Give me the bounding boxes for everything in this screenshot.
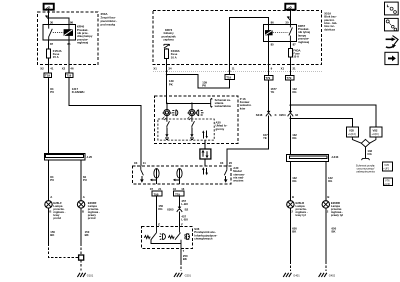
label E26LR — [296, 201, 308, 217]
svg-text:ków: ków — [240, 106, 246, 110]
wire 84 PU label — [50, 87, 54, 94]
instrument cluster P16 dashed box — [155, 96, 238, 143]
reference bracket — [209, 98, 212, 107]
svg-text:T19: T19 — [45, 74, 50, 78]
label KR40 — [77, 25, 93, 45]
svg-text:mgłowej: mgłowej — [298, 40, 309, 44]
pin labels 9 / X1 21 — [271, 67, 296, 71]
wire J-20 to left front lamp — [48, 160, 50, 201]
wire 132 OG label (lower) — [292, 133, 297, 140]
svg-text:PU: PU — [50, 90, 54, 94]
svg-text:X3: X3 — [220, 161, 224, 165]
wire 1677 YE to BCM X3-20 — [227, 116, 269, 166]
data link symbol box — [200, 149, 211, 159]
relay KR57 box — [263, 24, 296, 41]
legend box V35 — [383, 162, 393, 171]
body control module A30 dashed box — [132, 166, 231, 184]
svg-text:87: 87 — [50, 42, 54, 46]
wire 1677 YE label (upper) — [271, 87, 278, 94]
wire B+ to relay KR40 pin 30 — [48, 11, 50, 25]
svg-text:PK: PK — [202, 84, 206, 88]
splice pack J-20 — [44, 153, 85, 159]
wire 132 OG label (right rear) — [328, 176, 333, 183]
svg-text:33: 33 — [295, 113, 299, 117]
wire E26RR to ground — [325, 208, 327, 261]
svg-text:85: 85 — [271, 42, 275, 46]
label KR73 — [161, 28, 176, 42]
illumination ticks — [163, 117, 167, 120]
lamp E26LR — [287, 201, 294, 208]
svg-text:ciwmgłowych: ciwmgłowych — [194, 237, 212, 241]
wire splice to ground — [80, 260, 82, 272]
svg-text:L-BU: L-BU — [181, 218, 188, 222]
lamp E26LF — [45, 201, 52, 208]
wire 150 DG to switch S36 — [156, 196, 158, 226]
wire fuse F34DA down (139 PK) — [166, 58, 168, 103]
wire 84 PU label (left lamp) — [50, 175, 54, 182]
fuse F15UA — [47, 49, 51, 58]
BCM input pin (X4-16) — [173, 169, 182, 184]
svg-text:PU: PU — [50, 178, 54, 182]
nav icon forward arrow box — [385, 52, 398, 64]
svg-text:B: B — [49, 210, 51, 214]
svg-text:T98: T98 — [154, 192, 159, 196]
svg-text:OG: OG — [292, 90, 296, 94]
svg-text:16: 16 — [181, 187, 185, 191]
svg-text:41: 41 — [50, 67, 54, 71]
connector V35 box — [347, 127, 359, 137]
switch (front indicator) — [167, 116, 170, 128]
pin labels X3 20 — [220, 161, 233, 165]
label S36 — [194, 227, 217, 241]
label A30 logic — [216, 120, 228, 130]
wire 132 OG to trailer schematic — [365, 147, 367, 158]
svg-text:+UFJ: +UFJ — [383, 167, 390, 170]
front fog lamp icon — [172, 110, 178, 116]
wire 132 OG label (upper) — [292, 87, 297, 94]
svg-text:A: A — [83, 195, 85, 199]
svg-text:D-GN/WH: D-GN/WH — [72, 90, 85, 94]
BCM driver switch (front relay control) — [141, 166, 144, 175]
label P16 — [239, 97, 252, 111]
relay KR57 link dashed — [273, 32, 288, 34]
svg-text:BK: BK — [292, 230, 296, 234]
wire J-20 to right front lamp — [80, 160, 82, 201]
wire 150 BK label (left) — [50, 230, 55, 237]
svg-text:zapłonu: zapłonu — [163, 38, 174, 42]
connector T19 (left) — [44, 73, 51, 78]
junction dot (right indicator) — [191, 103, 193, 105]
svg-text:X1: X1 — [153, 67, 157, 71]
svg-text:giczny: giczny — [216, 127, 225, 131]
label X51A — [324, 11, 337, 31]
fuse F4DA — [288, 48, 292, 57]
wire KR57 pin 86 to X1-11 — [230, 18, 269, 75]
svg-text:V35: V35 — [384, 163, 389, 167]
svg-text:V82: V82 — [373, 128, 378, 132]
splice node — [79, 255, 84, 260]
lamp E26RR — [322, 201, 329, 208]
wire pin 87 to fuse — [48, 40, 50, 49]
wire E26LR to ground — [289, 208, 291, 261]
rear fog indicator lamp — [188, 109, 197, 116]
svg-text:V35: V35 — [349, 128, 354, 132]
relay KR40 contact — [49, 25, 53, 41]
svg-text:PU: PU — [83, 178, 87, 182]
svg-text:T19: T19 — [66, 74, 71, 78]
splice pack J-243 — [287, 154, 329, 161]
connector mark on B+ wire — [45, 16, 48, 20]
svg-text:K: K — [275, 113, 277, 117]
S36 lamp icon (front) — [159, 234, 165, 240]
junction dot — [290, 118, 292, 120]
switch (rear indicator) — [192, 116, 195, 128]
svg-text:BK: BK — [50, 233, 54, 237]
connector face dotted line X1 — [153, 70, 322, 72]
svg-text:B: B — [327, 195, 329, 199]
svg-text:10 A: 10 A — [293, 55, 299, 59]
svg-text:T19: T19 — [226, 76, 231, 80]
svg-text:X7: X7 — [150, 187, 154, 191]
wire rail to rear fog indicator — [191, 103, 193, 109]
svg-text:pod maską: pod maską — [101, 22, 116, 26]
pin labels X1 34 — [153, 67, 172, 71]
wire pin 85 to connector X2-46 — [68, 40, 70, 73]
relay KR40 box — [43, 25, 76, 41]
S36 internal wire — [151, 240, 181, 244]
svg-text:zabezpieczenia: zabezpieczenia — [356, 169, 375, 173]
junction dot — [166, 70, 168, 72]
wire B+ to relay KR57 pin 30 — [289, 11, 291, 25]
svg-text:11: 11 — [143, 161, 146, 165]
inline connector X204 pin 33 — [288, 111, 293, 116]
S36 lamp icon (rear) — [185, 234, 190, 240]
wire 250 BK to ground — [180, 248, 182, 262]
relay KR57 contact — [289, 24, 293, 41]
pin labels X4 16 — [173, 187, 185, 191]
svg-text:przód: przód — [53, 216, 61, 220]
svg-text:34: 34 — [168, 67, 172, 71]
svg-text:OG: OG — [292, 136, 296, 140]
relay KR40 coil — [64, 25, 73, 41]
svg-text:X2: X2 — [62, 67, 66, 71]
front fog indicator lamp — [163, 109, 172, 116]
wire branch 139 PK to T19 / X1-11 — [167, 75, 230, 88]
wire 650 BK label (right) — [332, 227, 337, 234]
svg-text:86: 86 — [271, 21, 275, 25]
S36 contact group (front) — [144, 227, 156, 240]
battery feed symbol B+ (hot at all times, left) — [44, 4, 54, 10]
logic unit A30 dotted box — [158, 119, 214, 140]
wire 132 OG label (left rear) — [292, 176, 297, 183]
connector mark on B+ wire — [287, 17, 290, 21]
inline connector X204 pin K — [266, 111, 271, 116]
BCM internal arrow (rear) — [224, 176, 228, 183]
svg-text:T79: T79 — [287, 76, 292, 80]
svg-text:YE: YE — [271, 90, 275, 94]
label E26RF — [88, 201, 100, 220]
wire 457 L-BU upper — [179, 196, 181, 207]
svg-text:J-243: J-243 — [331, 155, 339, 159]
svg-text:B: B — [292, 195, 294, 199]
svg-text:15 A: 15 A — [53, 55, 59, 59]
wire data link to BCM — [204, 159, 206, 166]
junction dot X1-11 — [229, 70, 231, 72]
wire 650 BK label (left) — [292, 227, 297, 234]
inline connector X205 — [177, 207, 182, 212]
svg-text:T79: T79 — [175, 192, 180, 196]
battery feed symbol B+ (right) — [285, 4, 295, 10]
nav icon component locator 2 — [385, 18, 399, 31]
svg-text:prawy tył: prawy tył — [331, 213, 343, 217]
wire 132 OG upper — [289, 80, 291, 112]
wire 457 L-BU label (lower) — [181, 214, 188, 221]
svg-text:11: 11 — [232, 67, 235, 71]
svg-text:21: 21 — [158, 187, 162, 191]
legend box V76 — [383, 178, 392, 186]
svg-text:BK: BK — [85, 233, 89, 237]
nav icon curved arrows — [386, 36, 399, 49]
BCM driver switch (rear relay control) — [224, 166, 227, 175]
svg-text:G101: G101 — [87, 273, 94, 277]
relay KR73 contact symbol — [164, 44, 170, 49]
connector V82 box — [370, 127, 382, 137]
svg-text:21: 21 — [293, 67, 297, 71]
relay KR40 link dashed — [53, 32, 64, 34]
ground G101 — [77, 273, 85, 277]
illumination ticks — [188, 117, 192, 120]
ground G401 — [283, 273, 291, 277]
wire 139 PK label (left) — [169, 79, 174, 86]
svg-text:87: 87 — [293, 42, 297, 46]
wire 1317 D-GN/WH label — [72, 87, 85, 94]
wire rail to front fog indicator — [166, 103, 168, 109]
junction dot 139 PK branch — [166, 74, 168, 76]
labels S248 K X204 33 — [256, 113, 299, 117]
svg-text:OG: OG — [367, 152, 371, 156]
svg-text:+U(FI): +U(FI) — [372, 133, 379, 136]
svg-text:BK: BK — [183, 257, 187, 261]
svg-text:OG: OG — [328, 179, 332, 183]
svg-text:B2: B2 — [185, 208, 189, 212]
lamp E26RF — [77, 201, 84, 208]
svg-text:YE: YE — [263, 136, 267, 140]
branch to V82 — [290, 105, 376, 127]
wire 132 OG middle — [289, 116, 291, 155]
svg-text:X2: X2 — [40, 67, 44, 71]
nav icon component locator 1 — [385, 2, 399, 15]
svg-text:PK: PK — [169, 82, 173, 86]
svg-text:X204: X204 — [279, 113, 286, 117]
svg-text:30: 30 — [50, 21, 54, 25]
label internal schematic reference — [214, 98, 232, 108]
label A30 BCM — [232, 166, 245, 183]
BCM input pin (X7-21) — [150, 169, 159, 184]
svg-text:46: 46 — [70, 67, 74, 71]
wire 150 DG label — [158, 204, 163, 211]
connector T19 (KR57 coil) — [225, 75, 235, 80]
serial data arrows (cluster) — [202, 130, 208, 138]
svg-text:X205: X205 — [167, 208, 174, 212]
wire 250 BK label — [183, 254, 188, 261]
svg-text:10 A: 10 A — [171, 55, 177, 59]
svg-text:OG: OG — [292, 179, 296, 183]
rear fog lamp icon — [197, 110, 204, 116]
ground arrow (rear) — [190, 128, 194, 139]
wire pin 87 to fuse F4DA — [289, 41, 291, 48]
label X205 / B2 — [167, 208, 189, 212]
relay KR57 coil — [265, 24, 272, 41]
svg-text:X1: X1 — [281, 67, 285, 71]
pin labels X2 41 / X2 46 — [40, 67, 74, 71]
connector T79 (1677) — [264, 76, 273, 81]
label KR57 — [298, 24, 310, 44]
branch to V35 — [290, 118, 352, 127]
junction dot — [290, 104, 292, 106]
connector T79 — [174, 191, 184, 196]
svg-text:G401: G401 — [293, 273, 300, 277]
wire 84 PU label (right lamp) — [83, 175, 87, 182]
svg-text:+U(FJ): +U(FJ) — [348, 133, 356, 136]
connector T79 (132) — [285, 76, 294, 81]
svg-text:S248: S248 — [256, 113, 263, 117]
wire 139 PK label (right) — [202, 80, 207, 87]
reference bracket — [362, 158, 370, 160]
pin labels X3 11 — [134, 161, 146, 165]
wire 457 L-BU lower — [179, 211, 181, 226]
wire J-243 to left rear lamp — [289, 161, 291, 200]
connector T98 — [152, 191, 162, 196]
internal feed rail — [167, 102, 210, 104]
svg-text:mgłowej: mgłowej — [77, 41, 88, 45]
wires V35/V82 to splice diamond — [352, 137, 376, 143]
svg-text:lewy tył: lewy tył — [296, 213, 306, 217]
wire pin 85 to T79 — [268, 41, 270, 75]
wire cluster to data link symbol — [204, 140, 206, 149]
BCM internal arrow (front) — [140, 176, 144, 183]
ground G201 — [174, 273, 182, 277]
serial data arrows (BCM) — [202, 167, 208, 175]
wire 457 L-BU label (upper) — [181, 199, 188, 206]
svg-text:B: B — [82, 210, 84, 214]
svg-text:wskaźników: wskaźników — [214, 104, 232, 108]
wire 84 PU down to splice pack J-20 — [48, 78, 50, 154]
svg-text:G402: G402 — [329, 273, 336, 277]
svg-text:A: A — [50, 195, 52, 199]
svg-text:przód: przód — [88, 216, 96, 220]
fog lamp switch S36 dashed box — [142, 227, 193, 249]
svg-text:BK: BK — [332, 230, 336, 234]
wire E26LF to splice — [48, 208, 50, 243]
label E26RR — [331, 201, 343, 217]
wire 1317 to BCM X3-11 — [69, 78, 141, 166]
fuse block X50A dashed box — [38, 12, 99, 65]
ground arrow (front) — [165, 128, 169, 139]
svg-text:L-BU: L-BU — [181, 202, 188, 206]
svg-text:T79: T79 — [265, 76, 270, 80]
wire 132 OG label (diamond) — [367, 149, 372, 156]
svg-text:X3: X3 — [134, 161, 138, 165]
label X50A — [101, 12, 118, 26]
wire 1677 YE upper — [268, 80, 270, 112]
splice diamond — [361, 139, 369, 147]
ground G402 — [319, 273, 327, 277]
wire 1677 YE label (lower) — [263, 133, 270, 140]
junction dot (left indicator) — [166, 103, 168, 105]
svg-text:G201: G201 — [185, 273, 192, 277]
svg-text:DG: DG — [158, 207, 162, 211]
label trailer schematic reference — [356, 163, 376, 173]
wire node to coil KR40 pin 86 — [49, 18, 69, 25]
svg-text:woziem: woziem — [232, 179, 244, 183]
pin labels X7 21 — [150, 187, 162, 191]
svg-text:dzielcza: dzielcza — [324, 27, 335, 31]
label E26LF — [53, 201, 65, 220]
svg-text:+U(F): +U(F) — [384, 183, 390, 186]
connector T19 (right) — [66, 73, 74, 78]
wire 150 BK label (right) — [85, 230, 90, 237]
fuse F34DA — [165, 49, 169, 58]
wire J-243 to right rear lamp — [325, 161, 327, 200]
wire fuse F4DA to T79 — [289, 57, 291, 75]
wire fuse to connector X2-41 — [48, 58, 50, 73]
svg-text:X4: X4 — [173, 187, 177, 191]
svg-text:J-20: J-20 — [87, 155, 93, 159]
S36 contact group (rear) — [168, 227, 181, 249]
svg-text:30: 30 — [285, 21, 289, 25]
svg-text:86: 86 — [70, 21, 74, 25]
fuse block X51A dashed box — [153, 11, 322, 65]
svg-text:20: 20 — [229, 161, 233, 165]
wire E26RF to splice — [80, 208, 82, 243]
